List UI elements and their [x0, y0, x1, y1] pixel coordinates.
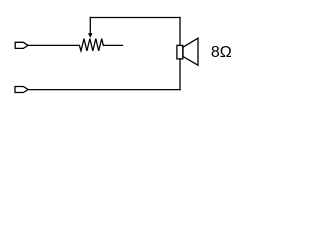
rheostat right lead (open end): [103, 44, 122, 46]
rheostat R (zigzag body): [79, 39, 103, 51]
wiper arrow shaft: [89, 18, 91, 34]
input terminal J2 (bottom): [15, 87, 28, 93]
wire top rail down to speaker: [179, 18, 181, 46]
wire wiper to top rail: [90, 17, 180, 19]
bottom rail wire: [28, 89, 180, 91]
value label 8 ohm: [211, 45, 232, 61]
speaker LS (driver box): [177, 45, 183, 59]
wiper arrowhead: [88, 33, 93, 38]
speaker LS (cone): [183, 38, 198, 65]
wire J1 to rheostat left lead: [28, 44, 79, 46]
wire speaker to bottom rail: [179, 59, 181, 90]
input terminal J1 (top): [15, 42, 28, 48]
